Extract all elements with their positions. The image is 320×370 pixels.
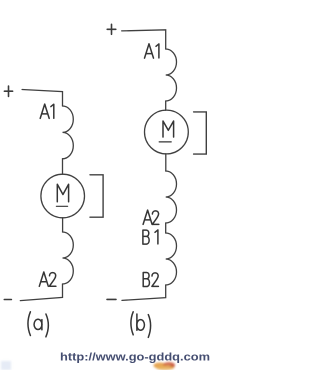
svg-text:http://www.go-gddq.com: http://www.go-gddq.com <box>60 351 210 363</box>
